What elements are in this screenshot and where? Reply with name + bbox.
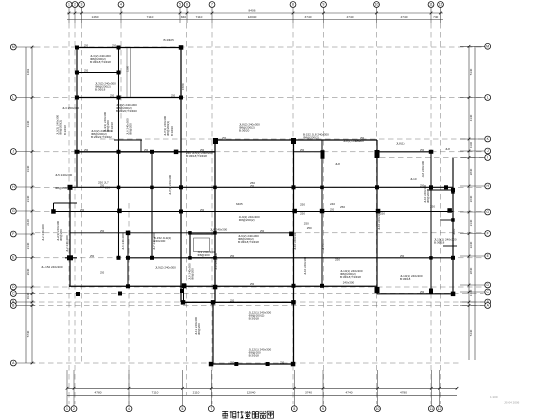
beam JL5 row J left [76,151,215,153]
svg-text:9: 9 [322,407,324,411]
svg-text:250: 250 [80,209,85,212]
svg-text:JL6 240x300: JL6 240x300 [210,228,228,232]
svg-text:250: 250 [222,137,227,140]
beam row F [70,232,294,234]
beam row C right [377,293,455,295]
svg-text:JS-04 2006: JS-04 2006 [504,401,520,405]
svg-text:JL10 240x300: JL10 240x300 [377,211,381,230]
small box inner outline [194,238,210,252]
svg-text:250: 250 [335,258,340,262]
beam JL2 interior [77,72,119,74]
svg-text:250: 250 [400,255,405,258]
svg-text:250: 250 [330,209,335,212]
svg-text:M: M [486,45,489,49]
svg-text:250: 250 [300,203,305,207]
svg-text:4: 4 [128,407,130,411]
beam row E stub [65,257,77,259]
svg-text:JL7(2) 240x300: JL7(2) 240x300 [168,175,172,195]
svg-text:4140: 4140 [26,120,30,127]
beam short jog [140,140,142,152]
svg-text:9: 9 [323,3,325,7]
svg-text:250: 250 [200,209,205,212]
beam small box top [190,233,215,235]
svg-text:2: 2 [74,3,76,7]
svg-text:8: 8 [292,3,294,7]
svg-text:J: J [12,150,14,154]
svg-text:10: 10 [375,3,379,7]
svg-text:12: 12 [438,407,442,411]
svg-text:7: 7 [211,3,213,7]
beam row B mid [183,301,294,303]
svg-text:1140: 1140 [469,142,473,149]
beam axis10 vertical [376,140,378,294]
svg-text:JL10: JL10 [452,228,456,235]
left dimension text [26,68,30,337]
bottom dimension lines [67,388,457,395]
beam JL8 right wing top [215,139,377,141]
svg-text:250: 250 [100,271,105,274]
svg-text:2: 2 [73,407,75,411]
svg-text:4740: 4740 [347,15,354,19]
svg-text:4740: 4740 [401,15,408,19]
svg-text:250: 250 [112,45,117,48]
svg-text:7110: 7110 [147,15,154,19]
svg-text:2140: 2140 [469,219,473,226]
svg-text:M: M [12,45,15,49]
bottom dimension ticks [66,387,459,390]
svg-text:B:4Φ25: B:4Φ25 [164,38,175,42]
left dimension lines [26,47,32,363]
beam annotations (vertical) [41,83,456,335]
beam axis9 vertical [321,140,323,286]
svg-text:F: F [12,232,14,236]
svg-text:250: 250 [260,230,265,233]
svg-text:250: 250 [307,226,312,230]
top dimension text [92,9,439,19]
svg-text:250: 250 [250,185,255,188]
svg-text:250: 250 [250,283,255,286]
svg-text:840: 840 [181,15,186,19]
svg-text:250: 250 [84,70,89,73]
svg-text:G: G [12,209,15,213]
svg-text:250: 250 [200,149,205,152]
beam short row K [114,139,142,141]
svg-text:JL8(1): JL8(1) [396,142,405,146]
beam end tick labels [80,45,425,365]
beam bottom block [211,363,295,365]
beam small box left [189,233,191,258]
svg-text:10: 10 [376,407,380,411]
svg-text:2240: 2240 [469,241,473,248]
beam JL1 top of upper-left block [77,47,181,49]
svg-text:250: 250 [230,255,235,258]
svg-text:250: 250 [304,222,309,226]
svg-text:5740: 5740 [26,330,30,337]
svg-text:3740: 3740 [305,15,312,19]
top axis bubbles [66,2,443,8]
svg-text:2640: 2640 [469,195,473,202]
svg-text:250: 250 [230,300,235,303]
svg-text:12: 12 [439,3,443,7]
svg-text:JL10 240x300: JL10 240x300 [303,256,307,275]
svg-text:1460: 1460 [92,15,99,19]
interior dim block1 [126,48,131,97]
svg-text:8406: 8406 [249,9,256,13]
svg-text:1: 1 [66,407,68,411]
svg-text:B:3Φ18: B:3Φ18 [110,122,114,132]
svg-text:250: 250 [230,361,235,364]
svg-text:1:100: 1:100 [490,395,498,399]
svg-text:G: G [486,210,489,214]
svg-text:250: 250 [420,149,425,152]
left axis stems [16,47,35,363]
svg-text:250: 250 [340,205,345,209]
svg-text:240: 240 [330,202,335,206]
svg-text:12040: 12040 [247,391,256,395]
svg-text:3140: 3140 [26,165,30,172]
beam axis4 vertical [118,48,120,258]
svg-text:2140: 2140 [26,242,30,249]
svg-text:Φ8@200: Φ8@200 [55,186,67,190]
svg-text:J: J [487,149,489,153]
svg-text:250: 250 [84,149,89,152]
svg-text:6405: 6405 [236,202,243,206]
svg-text:JL7 240x300: JL7 240x300 [152,233,156,250]
beam axis7 vertical [214,140,216,302]
svg-text:250: 250 [420,291,425,294]
svg-text:JL10: JL10 [410,177,417,181]
svg-text:JL-152 240x300: JL-152 240x300 [41,265,63,269]
svg-text:12040: 12040 [248,15,257,19]
svg-text:1940: 1940 [26,292,30,299]
svg-text:L: L [487,96,489,100]
svg-text:JL10 240x300: JL10 240x300 [293,231,297,250]
svg-text:250: 250 [84,45,89,48]
svg-text:3740: 3740 [305,391,312,395]
svg-text:JL3 250x300: JL3 250x300 [62,106,80,110]
right axis bubbles [485,43,491,308]
svg-text:7: 7 [210,407,212,411]
bottom axis stems [67,370,440,406]
svg-text:240x300: 240x300 [343,281,355,285]
svg-text:250: 250 [171,95,176,98]
beam right wall [452,158,454,294]
svg-text:JL8: JL8 [335,162,340,166]
svg-text:4780: 4780 [400,391,407,395]
svg-text:2140: 2140 [26,195,30,202]
beam right room 3 [443,245,457,247]
svg-text:8: 8 [293,407,295,411]
beam right room 1 [427,189,453,191]
vertical grid axes (dashed) [69,23,441,404]
svg-text:L: L [12,96,14,100]
svg-text:2840: 2840 [469,267,473,274]
top dimension lines [67,13,443,20]
svg-text:740: 740 [433,15,438,19]
svg-text:2840: 2840 [469,168,473,175]
beam bottom block left [212,302,214,364]
title 基础拉梁配筋图 [222,411,273,418]
svg-text:JL2 240x300: JL2 240x300 [41,224,45,241]
svg-text:6: 6 [186,3,188,7]
beam mid-left vertical [151,152,153,258]
svg-text:JL10: JL10 [321,243,325,250]
svg-text:2110: 2110 [193,391,200,395]
svg-text:250: 250 [100,185,105,188]
svg-text:250: 250 [144,149,149,152]
beam row D mid [69,285,377,287]
svg-text:JL6 240x300: JL6 240x300 [121,233,125,250]
svg-text:11: 11 [429,3,433,7]
beam JL3 row L [76,97,181,99]
horizontal grid axes (dashed) [30,47,484,363]
svg-text:2940: 2940 [26,268,30,275]
right dimension lines [469,46,475,360]
svg-text:JL9(2) 240x300: JL9(2) 240x300 [155,266,176,270]
svg-text:JL9 Φ8@200: JL9 Φ8@200 [214,252,218,270]
beam row H [68,186,453,188]
svg-text:250: 250 [360,137,365,140]
svg-text:4780: 4780 [95,391,102,395]
svg-text:250: 250 [90,255,95,258]
svg-text:4140: 4140 [469,114,473,121]
svg-text:B:3Φ20: B:3Φ20 [170,126,174,136]
svg-text:5: 5 [179,3,181,7]
svg-text:1740: 1740 [469,289,473,296]
beam row E [128,257,453,259]
svg-text:5: 5 [182,407,184,411]
beam annotations (horizontal) [41,38,457,358]
svg-text:250: 250 [110,95,115,98]
svg-text:I: I [487,156,488,160]
scale note [490,395,520,405]
bottom dimension text [95,391,408,395]
svg-text:1580: 1580 [126,66,130,72]
beam axis5 spine vertical [180,48,182,303]
top dimension ticks [68,12,442,15]
svg-text:250: 250 [280,361,285,364]
bottom axis bubbles [64,406,442,412]
beam axis8 vertical [293,140,295,364]
right axis stems [460,46,485,305]
svg-text:1492: 1492 [26,68,30,75]
right dimension text [469,68,473,336]
svg-text:JL2 240x300: JL2 240x300 [65,235,69,252]
top axis stems [69,7,441,23]
svg-text:7110: 7110 [196,15,203,19]
svg-text:250: 250 [105,186,110,190]
beam jog at axis5 [183,286,185,303]
beam JL8 row J mid [294,151,323,153]
svg-text:250: 250 [300,149,305,152]
beam axis4b vertical [127,233,129,286]
svg-text:250: 250 [420,185,425,188]
right dimension ticks [468,45,471,307]
svg-text:5140: 5140 [469,68,473,75]
beam small box bottom [190,257,215,259]
svg-text:7110: 7110 [152,391,159,395]
svg-text:2140: 2140 [26,219,30,226]
svg-text:JL8 240x300: JL8 240x300 [421,161,425,178]
svg-text:5440: 5440 [469,329,473,336]
svg-text:250: 250 [300,212,305,216]
beam row G [54,211,454,213]
svg-text:11: 11 [430,407,434,411]
svg-text:250: 250 [100,230,105,233]
beam axis2 vertical [76,48,78,188]
svg-text:F: F [487,232,489,236]
beam left porch top [54,202,78,204]
beam right room 2 [440,219,453,221]
svg-text:JL8: JL8 [445,147,450,151]
left axis bubbles [10,44,16,366]
columns (filled) [51,45,455,366]
svg-text:3: 3 [81,3,83,7]
svg-text:1: 1 [68,3,70,7]
svg-text:JL5 240x300: JL5 240x300 [55,173,73,177]
left dimension ticks [31,46,34,365]
beam porch left [53,203,55,212]
svg-text:250: 250 [430,205,435,209]
beam JL8 row J right [377,151,431,153]
svg-text:4740: 4740 [346,391,353,395]
beam axis13 vertical [430,152,432,294]
svg-text:1580: 1580 [181,83,185,90]
beam left outline lower [69,187,71,286]
svg-text:4: 4 [120,3,122,7]
svg-text:B:2Φ18: B:2Φ18 [63,125,67,135]
